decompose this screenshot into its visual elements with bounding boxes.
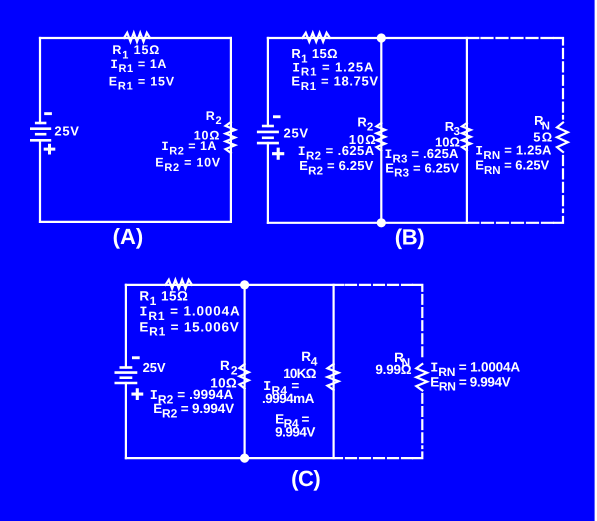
battery 25V (circuit A) [30, 123, 51, 140]
battery plus sign (A) [45, 145, 54, 153]
dashed wire: Norton box right upper (B) [562, 49, 564, 119]
resistor R2 (circuit B) [376, 123, 385, 151]
node: junction dot bottom (C) [240, 454, 249, 463]
battery minus sign (A) [44, 112, 52, 115]
svg-text:25V: 25V [284, 126, 309, 141]
svg-text:(A): (A) [113, 224, 144, 249]
resistor R1 (circuit A) [124, 33, 150, 42]
svg-text:25V: 25V [54, 124, 79, 139]
svg-text:(B): (B) [395, 224, 425, 249]
battery plus sign (C) [133, 390, 142, 399]
node: junction dot top (B) [377, 33, 386, 42]
dashed wire: Norton box right lower (C) [421, 394, 423, 448]
wire: circuit B top side [268, 37, 478, 39]
wire: circuit C top side [126, 284, 344, 286]
svg-text:25V: 25V [143, 360, 166, 375]
resistor RN (circuit B) [557, 123, 568, 153]
wire: circuit C bottom side [126, 457, 334, 459]
dashed wire: Norton box bottom (B) [482, 222, 554, 224]
node: junction dot bottom (B) [377, 218, 386, 227]
resistor R1 (circuit C) [166, 280, 193, 289]
battery 25V (circuit C) [115, 368, 138, 384]
dashed wire: Norton box right upper (C) [421, 295, 423, 361]
wire: circuit B bottom side [268, 222, 478, 224]
wire: circuit C left side [125, 285, 127, 458]
svg-text:.9994mA: .9994mA [262, 391, 315, 406]
resistor R2 (circuit A) [226, 122, 236, 153]
dashed wire: Norton box top-right corner (C) [413, 285, 422, 291]
wire: circuit B right side [466, 38, 468, 223]
resistor R3 (circuit B) [462, 123, 471, 151]
resistor R2 (circuit C) [239, 364, 248, 389]
battery minus sign (B) [273, 115, 281, 118]
battery 25V (circuit B) [257, 126, 279, 143]
wire: circuit B left side [267, 38, 269, 223]
dashed wire: Norton box bottom-right corner (B) [554, 217, 563, 223]
dashed wire: Norton box bottom (C) [336, 457, 412, 459]
svg-text:(C): (C) [291, 466, 321, 491]
battery plus sign (B) [274, 149, 283, 158]
wire: circuit A right side [230, 38, 232, 222]
dashed wire: Norton box top-right corner (B) [554, 38, 563, 45]
dashed wire: Norton box top (B) [482, 37, 554, 39]
resistor R4 (circuit C) [327, 364, 338, 390]
wire: circuit A bottom side [40, 221, 231, 223]
dashed wire: Norton box top (C) [346, 284, 412, 286]
battery minus sign (C) [132, 356, 140, 359]
svg-text:9.99Ω: 9.99Ω [375, 362, 411, 377]
svg-text:9.994V: 9.994V [275, 424, 315, 439]
resistor R1 (circuit B) [302, 33, 330, 42]
dashed wire: Norton box bottom-right corner (C) [413, 453, 422, 459]
wire: circuit A left side [39, 38, 41, 222]
node: junction dot top (C) [240, 280, 249, 289]
resistor RN (circuit C) [416, 364, 427, 391]
dashed wire: Norton box right lower (B) [562, 156, 564, 212]
wire: circuit A top side [40, 37, 231, 39]
wire: circuit C middle branch [244, 285, 246, 458]
wire: circuit C right side [333, 285, 335, 458]
wire: circuit B middle branch [380, 38, 382, 223]
